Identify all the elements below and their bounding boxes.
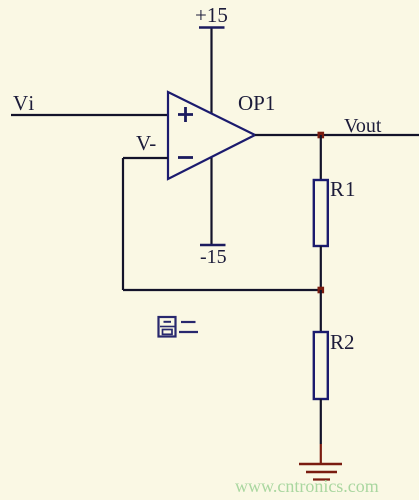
wire: ground lead (dark red) <box>320 444 322 464</box>
svg-text:Vi: Vi <box>13 91 36 115</box>
wire: feedback vertical segment <box>122 158 124 290</box>
wire: +15 supply rail down through op-amp to -15 rail <box>210 28 212 245</box>
svg-text:R1: R1 <box>330 177 357 201</box>
svg-text:+15: +15 <box>195 3 228 27</box>
wire: R1 bottom to feedback node <box>320 246 322 290</box>
wire: op-amp output to Vout <box>255 134 419 136</box>
svg-text:-15: -15 <box>200 246 227 268</box>
svg-text:Vout: Vout <box>344 115 382 137</box>
wire: inverting input stub <box>123 157 168 159</box>
ground symbol <box>299 464 342 480</box>
power -15 symbol <box>200 245 227 268</box>
resistor R2 <box>314 332 328 399</box>
wire: output node down to R1 <box>320 135 322 180</box>
resistor R1 <box>314 180 328 246</box>
power +15 symbol <box>195 3 228 28</box>
svg-text:V-: V- <box>136 131 156 155</box>
op-amp OP1 triangle <box>168 92 255 179</box>
node: feedback junction <box>318 287 325 294</box>
svg-text:R2: R2 <box>330 330 355 354</box>
svg-text:OP1: OP1 <box>238 91 275 115</box>
svg-text:www.cntronics.com: www.cntronics.com <box>235 476 379 496</box>
wire: feedback node down to R2 <box>320 290 322 332</box>
wire: Vi input to non-inverting input <box>11 114 168 116</box>
wire: R2 bottom toward ground <box>320 399 322 444</box>
op-amp plus input marking <box>178 107 193 122</box>
node: output junction <box>318 132 325 139</box>
wire: feedback horizontal segment to divider node <box>123 289 321 291</box>
op-amp minus input marking <box>178 156 193 159</box>
figure caption 圖二 (drawn as vector strokes) <box>159 317 199 337</box>
